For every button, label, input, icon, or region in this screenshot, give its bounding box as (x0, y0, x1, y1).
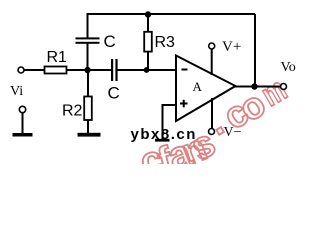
capacitor C series (111, 59, 113, 81)
top feedback wire (87, 13, 256, 15)
svg-text:Vi: Vi (10, 84, 23, 99)
svg-text:R3: R3 (155, 34, 176, 51)
wire R2 to ground (87, 120, 89, 133)
wire R3 down to node B (147, 52, 149, 71)
node top junction R3 (145, 11, 151, 17)
wire V+ terminal to op-amp (211, 49, 213, 75)
wire series C to op-amp inverting input (118, 69, 177, 71)
resistor R3 (144, 32, 152, 52)
wire op-amp output to Vo (235, 86, 281, 88)
right feedback wire down (254, 14, 256, 86)
svg-text:C: C (108, 84, 120, 103)
wire terminal to ground (22, 113, 24, 133)
svg-text:V−: V− (224, 125, 242, 140)
node B inverting input junction (144, 67, 150, 73)
svg-text:Vo: Vo (281, 60, 296, 75)
ground under R2 (78, 133, 101, 137)
capacitor C feedback (76, 42, 100, 44)
power terminal V+ (209, 43, 215, 49)
wire non-inverting input to ground (163, 105, 177, 139)
op-amp plus sign (180, 103, 188, 105)
op-amp minus sign (182, 69, 188, 71)
wire top node down to R3 (147, 14, 149, 32)
watermark elecfans.com (137, 72, 293, 184)
ground terminal circle lower-left (19, 106, 25, 112)
ground lower-left (13, 133, 33, 137)
resistor R1 (45, 67, 67, 74)
svg-text:V+: V+ (222, 39, 241, 55)
wire Vi to R1 (24, 69, 45, 71)
svg-text:C: C (104, 32, 116, 51)
ground at non-inverting input (155, 139, 170, 142)
wire node A up to feedback capacitor (87, 44, 89, 71)
node A input junction (84, 67, 90, 73)
input terminal Vi (18, 67, 24, 73)
svg-text:R1: R1 (47, 49, 68, 66)
wire feedback capacitor up to top wire (87, 13, 89, 38)
svg-text:R2: R2 (62, 103, 83, 120)
op-amp A triangle (176, 56, 236, 122)
resistor R2 (84, 97, 92, 121)
power terminal V- (209, 129, 215, 135)
svg-text:A: A (193, 79, 203, 94)
wire op-amp to V- terminal (211, 98, 213, 129)
wire R1 to series C through node A (67, 69, 112, 71)
node output junction (251, 83, 257, 89)
output terminal Vo (281, 84, 287, 90)
wire node A down to R2 (87, 70, 89, 97)
